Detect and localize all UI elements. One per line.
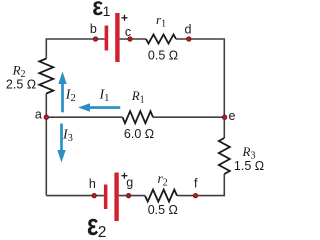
svg-text:0.5 Ω: 0.5 Ω [148,203,178,217]
wire R3 to bottom-right corner to resistor r2 [177,174,224,196]
current arrow I3 [57,124,65,163]
wire resistor R1 to node e [153,116,224,118]
resistor r2 [145,190,177,202]
resistor R3 [219,138,230,174]
EMF label epsilon-2 [87,207,107,240]
node b [90,22,98,41]
svg-text:a: a [35,107,42,121]
resistor r1 [146,35,176,44]
battery E1 negative plate [105,26,109,51]
svg-text:1.5 Ω: 1.5 Ω [234,159,264,173]
svg-text:c: c [125,25,131,39]
battery E2 plus sign [121,173,127,179]
node d [185,22,192,41]
svg-text:2: 2 [98,224,107,238]
svg-text:6.0 Ω: 6.0 Ω [124,127,154,141]
battery E2 negative plate [104,185,108,210]
node c [125,25,132,41]
svg-text:ε: ε [87,207,98,238]
svg-text:f: f [194,177,198,191]
current arrow I1 [78,103,120,111]
node f [193,177,198,198]
resistor R1 [123,111,154,123]
svg-text:h: h [89,177,96,191]
wire battery E1 to resistor r1 [120,38,146,40]
svg-text:2.5 Ω: 2.5 Ω [6,78,36,92]
battery E1 positive plate [115,13,119,62]
battery E1 plus sign [122,15,128,21]
current arrow I2 [58,72,66,113]
node e [222,109,235,123]
wire node e to resistor R3 [223,117,225,138]
wire left side (node a down to bottom-left corner) [45,94,47,196]
wire top-left segment (corner to battery E1 negative plate) [46,39,104,59]
svg-text:e: e [229,109,236,123]
node h [89,177,97,198]
wire battery E2 positive plate to resistor r2 [119,195,145,197]
svg-text:g: g [126,176,133,190]
node g [126,176,133,198]
battery E2 positive plate [114,173,118,222]
node a [35,107,49,121]
svg-text:1: 1 [103,3,111,19]
wire bottom-left corner to battery E2 negative plate [46,195,104,197]
svg-text:d: d [185,22,192,36]
svg-text:b: b [90,22,97,36]
svg-text:0.5 Ω: 0.5 Ω [148,49,178,63]
resistor R2 [39,59,53,94]
wire middle (node a to resistor R1) [46,116,122,118]
EMF label epsilon-1 [92,0,110,21]
wire r1 to node d to top-right corner and down to node e [176,39,224,117]
